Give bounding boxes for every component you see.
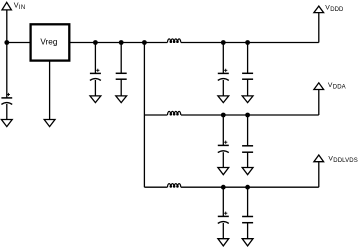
wire rail VDDA right segment — [181, 114, 319, 116]
ground (C7) — [242, 168, 253, 175]
capacitor C4 (polarized) — [218, 43, 229, 96]
ground (C9) — [242, 239, 253, 246]
capacitor C3 — [116, 43, 127, 96]
wire rail VDDLVDS right segment — [181, 186, 319, 188]
wire rail VDDLVDS riser — [318, 162, 320, 188]
capacitor C7 — [242, 115, 253, 168]
capacitor C8 (polarized) — [218, 187, 229, 239]
node rail1 cap C3 — [119, 40, 124, 45]
capacitor C6 (polarized) — [218, 115, 229, 168]
wire rail VDDD riser — [318, 13, 320, 43]
capacitor C2 (polarized) — [90, 43, 101, 96]
node rail3 cap C8 — [221, 185, 226, 190]
capacitor C5 — [242, 43, 253, 96]
node rail1 cap C2 — [93, 40, 98, 45]
inductor L2 — [168, 111, 181, 115]
wire rail VDDLVDS left segment — [144, 186, 167, 188]
ground (input cap) — [1, 120, 12, 127]
inductor L3 — [168, 184, 181, 188]
svg-text:IN: IN — [19, 5, 26, 11]
ground (C8) — [218, 239, 229, 246]
node rail1 branch — [142, 40, 147, 45]
ground (C6) — [218, 168, 229, 175]
ground (C2) — [90, 96, 101, 103]
wire rail VDDA left segment — [144, 114, 167, 116]
ground (C5) — [242, 96, 253, 103]
capacitor C9 — [242, 187, 253, 239]
node rail1 cap C5 — [245, 40, 250, 45]
voltage regulator Vreg — [31, 24, 70, 60]
wire V_IN to Vreg input — [7, 42, 31, 44]
wire rail VDDD right segment — [181, 42, 319, 44]
wire rail VDDA riser — [318, 90, 320, 116]
ground (C4) — [218, 96, 229, 103]
svg-text:DDLVDS: DDLVDS — [333, 158, 358, 164]
node rail2 cap C7 — [245, 113, 250, 118]
wire rail VDDD left segment — [69, 42, 167, 44]
power symbol V_DDLVDS — [314, 155, 358, 164]
power symbol V_DDD — [314, 4, 344, 13]
svg-text:Vreg: Vreg — [40, 38, 57, 47]
ground (Vreg) — [44, 120, 55, 127]
svg-text:DDD: DDD — [330, 7, 344, 13]
wire branch vertical — [143, 43, 145, 188]
node rail2 cap C6 — [221, 113, 226, 118]
power symbol V_IN — [2, 1, 26, 11]
svg-text:DDA: DDA — [333, 85, 346, 91]
inductor L1 — [168, 39, 181, 43]
power symbol V_DDA — [314, 82, 346, 91]
capacitor C1 (input, polarized) — [1, 93, 12, 120]
node rail1 cap C4 — [221, 40, 226, 45]
wire V_IN lead down — [6, 10, 8, 98]
node rail3 cap C9 — [245, 185, 250, 190]
wire Vreg ground lead — [49, 61, 51, 120]
node V_IN junction — [4, 40, 9, 45]
ground (C3) — [116, 96, 127, 103]
